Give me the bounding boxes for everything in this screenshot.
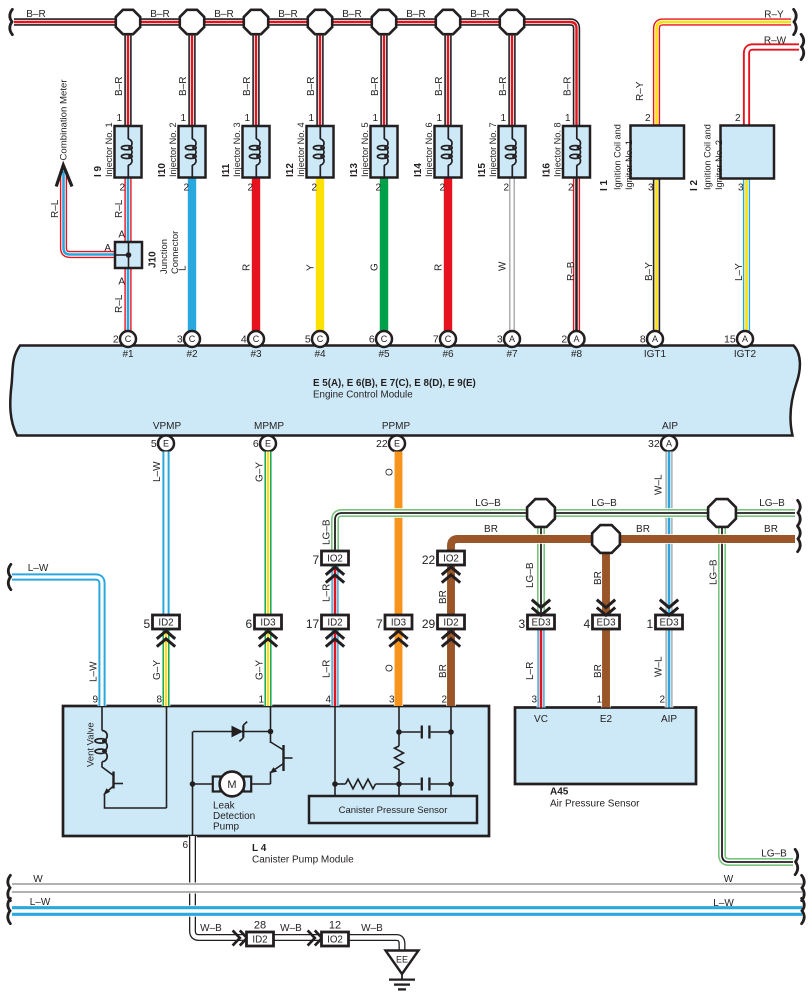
svg-text:IO2: IO2	[327, 934, 343, 945]
svg-text:LG–B: LG–B	[591, 498, 617, 509]
svg-text:Junction: Junction	[158, 239, 169, 274]
svg-text:BR: BR	[636, 524, 650, 535]
svg-text:G–Y: G–Y	[152, 660, 163, 680]
svg-text:I13: I13	[349, 163, 360, 177]
svg-text:A: A	[573, 334, 579, 344]
svg-text:ED3: ED3	[596, 617, 616, 628]
svg-text:I10: I10	[157, 163, 168, 177]
svg-text:7: 7	[376, 617, 383, 631]
svg-text:5: 5	[151, 438, 157, 450]
svg-text:L–W: L–W	[88, 661, 99, 682]
svg-text:W–B: W–B	[361, 923, 383, 934]
svg-text:32: 32	[648, 438, 660, 450]
svg-text:IO2: IO2	[327, 553, 343, 564]
svg-text:LG–B: LG–B	[761, 849, 787, 860]
svg-text:#3: #3	[250, 349, 262, 360]
svg-text:W: W	[33, 874, 43, 885]
svg-text:B–R: B–R	[470, 9, 489, 20]
svg-text:B–R: B–R	[242, 77, 253, 96]
svg-text:6: 6	[182, 840, 188, 851]
svg-text:1: 1	[180, 113, 186, 124]
svg-text:3: 3	[738, 183, 744, 194]
svg-text:6: 6	[369, 334, 375, 346]
svg-text:3: 3	[519, 617, 526, 631]
svg-text:M: M	[227, 779, 236, 791]
svg-text:#6: #6	[442, 349, 454, 360]
svg-text:2: 2	[659, 695, 665, 706]
svg-text:BR: BR	[438, 590, 449, 604]
svg-text:#8: #8	[571, 349, 583, 360]
svg-text:2: 2	[561, 334, 567, 346]
svg-text:R–L: R–L	[50, 199, 61, 218]
svg-text:L 4: L 4	[252, 843, 267, 854]
svg-text:B–R: B–R	[563, 77, 574, 96]
svg-text:28: 28	[254, 920, 266, 932]
svg-text:I15: I15	[477, 163, 488, 177]
svg-text:2: 2	[503, 183, 509, 194]
svg-text:BR: BR	[484, 524, 498, 535]
svg-text:2: 2	[735, 113, 741, 124]
svg-text:Injector No. 1: Injector No. 1	[104, 122, 114, 177]
svg-text:12: 12	[329, 920, 341, 932]
svg-text:B–R: B–R	[278, 9, 297, 20]
svg-text:L–R: L–R	[322, 660, 333, 678]
svg-text:Leak: Leak	[213, 801, 236, 812]
svg-text:#5: #5	[378, 349, 390, 360]
svg-text:Igniter No. 1: Igniter No. 1	[624, 140, 634, 190]
svg-text:A: A	[118, 277, 125, 288]
svg-text:Injector No. 2: Injector No. 2	[168, 122, 178, 177]
svg-text:W–B: W–B	[200, 923, 222, 934]
svg-text:R–B: R–B	[566, 261, 577, 281]
svg-text:B–R: B–R	[434, 77, 445, 96]
svg-text:22: 22	[422, 553, 436, 567]
svg-text:2: 2	[183, 183, 189, 194]
svg-text:B–R: B–R	[406, 9, 425, 20]
svg-text:C: C	[253, 334, 260, 344]
svg-text:C: C	[445, 334, 452, 344]
svg-text:E: E	[163, 439, 169, 449]
svg-text:B–Y: B–Y	[644, 262, 655, 281]
svg-text:L–R: L–R	[525, 662, 536, 680]
svg-text:B–R: B–R	[370, 77, 381, 96]
svg-text:I11: I11	[221, 163, 232, 177]
svg-text:AIP: AIP	[661, 714, 677, 725]
svg-text:BR: BR	[593, 664, 604, 678]
svg-text:R–Y: R–Y	[635, 81, 646, 101]
svg-text:R: R	[241, 264, 252, 271]
svg-text:A45: A45	[550, 787, 569, 798]
svg-text:1: 1	[308, 113, 314, 124]
svg-text:1: 1	[258, 695, 264, 706]
svg-text:1: 1	[596, 695, 602, 706]
svg-text:G–Y: G–Y	[255, 660, 266, 680]
svg-text:R–L: R–L	[114, 199, 125, 218]
svg-text:Ignition Coil and: Ignition Coil and	[703, 124, 713, 190]
svg-text:B–R: B–R	[306, 77, 317, 96]
svg-text:J10: J10	[148, 251, 159, 268]
svg-text:C: C	[381, 334, 388, 344]
svg-text:E 5(A), E 6(B), E 7(C), E 8(D): E 5(A), E 6(B), E 7(C), E 8(D), E 9(E)	[313, 378, 476, 389]
svg-text:2: 2	[645, 113, 651, 124]
svg-text:Injector No. 5: Injector No. 5	[360, 122, 370, 177]
svg-text:B–R: B–R	[114, 77, 125, 96]
svg-text:ID2: ID2	[327, 617, 342, 628]
svg-text:C: C	[125, 334, 132, 344]
svg-text:Canister Pressure Sensor: Canister Pressure Sensor	[339, 805, 448, 816]
svg-text:4: 4	[241, 334, 247, 346]
svg-text:BR: BR	[438, 664, 449, 678]
svg-text:1: 1	[565, 113, 571, 124]
svg-text:O: O	[385, 664, 396, 672]
svg-text:Injector No. 3: Injector No. 3	[232, 122, 242, 177]
svg-text:Detection: Detection	[213, 811, 255, 822]
svg-text:A: A	[118, 230, 125, 241]
svg-text:I 9: I 9	[93, 165, 104, 177]
svg-text:IGT1: IGT1	[644, 349, 667, 360]
svg-text:#4: #4	[314, 349, 326, 360]
svg-text:LG–B: LG–B	[525, 562, 536, 588]
svg-text:MPMP: MPMP	[254, 421, 284, 432]
svg-text:LG–B: LG–B	[759, 498, 785, 509]
svg-text:7: 7	[313, 553, 320, 567]
svg-text:5: 5	[305, 334, 311, 346]
svg-text:ED3: ED3	[531, 617, 551, 628]
svg-text:#2: #2	[186, 349, 198, 360]
svg-text:E: E	[394, 439, 400, 449]
svg-text:1: 1	[647, 617, 654, 631]
svg-text:B–R: B–R	[498, 77, 509, 96]
svg-text:1: 1	[436, 113, 442, 124]
svg-text:22: 22	[376, 438, 388, 450]
svg-text:Injector No. 6: Injector No. 6	[424, 122, 434, 177]
svg-text:1: 1	[116, 113, 122, 124]
svg-text:6: 6	[246, 617, 253, 631]
svg-text:2: 2	[568, 183, 574, 194]
svg-text:W–B: W–B	[280, 923, 302, 934]
svg-text:2: 2	[441, 695, 447, 706]
svg-text:IGT2: IGT2	[734, 349, 757, 360]
svg-text:4: 4	[325, 695, 331, 706]
svg-text:3: 3	[177, 334, 183, 346]
svg-text:1: 1	[500, 113, 506, 124]
svg-text:L–W: L–W	[713, 898, 734, 909]
svg-text:IO2: IO2	[443, 553, 459, 564]
svg-text:Injector No. 4: Injector No. 4	[296, 122, 306, 177]
svg-text:Pump: Pump	[213, 822, 240, 833]
svg-text:R–Y: R–Y	[764, 10, 784, 21]
svg-text:#7: #7	[506, 349, 518, 360]
svg-text:B–R: B–R	[214, 9, 233, 20]
svg-text:AIP: AIP	[662, 421, 678, 432]
svg-text:L–W: L–W	[28, 563, 49, 574]
svg-text:1: 1	[372, 113, 378, 124]
svg-text:2: 2	[311, 183, 317, 194]
svg-text:VC: VC	[534, 714, 548, 725]
svg-text:B–R: B–R	[178, 77, 189, 96]
svg-text:ID3: ID3	[260, 617, 276, 628]
svg-text:2: 2	[113, 334, 119, 346]
svg-text:B–R: B–R	[150, 9, 169, 20]
svg-text:W: W	[724, 874, 734, 885]
svg-text:#1: #1	[122, 349, 134, 360]
svg-text:Injector No. 7: Injector No. 7	[488, 122, 498, 177]
svg-text:I 2: I 2	[689, 179, 700, 191]
svg-text:W–L: W–L	[654, 656, 665, 677]
svg-text:I12: I12	[285, 163, 296, 177]
svg-text:ID2: ID2	[158, 617, 173, 628]
svg-text:W–L: W–L	[654, 474, 665, 495]
svg-text:2: 2	[439, 183, 445, 194]
svg-text:ED3: ED3	[659, 617, 679, 628]
svg-text:LG–B: LG–B	[709, 559, 720, 585]
svg-text:Air Pressure Sensor: Air Pressure Sensor	[550, 799, 640, 810]
svg-text:LG–B: LG–B	[322, 519, 333, 545]
svg-text:2: 2	[119, 183, 125, 194]
svg-text:5: 5	[144, 617, 151, 631]
svg-text:PPMP: PPMP	[382, 421, 411, 432]
svg-text:A: A	[509, 334, 515, 344]
svg-text:ID2: ID2	[443, 617, 458, 628]
svg-text:Igniter No. 2: Igniter No. 2	[714, 140, 724, 190]
svg-text:G: G	[369, 263, 380, 271]
svg-text:O: O	[385, 468, 396, 476]
svg-text:6: 6	[253, 438, 259, 450]
svg-text:Connector: Connector	[169, 231, 180, 274]
svg-text:3: 3	[497, 334, 503, 346]
svg-text:R–W: R–W	[764, 36, 787, 47]
svg-text:R–L: R–L	[114, 294, 125, 313]
svg-text:E: E	[265, 439, 271, 449]
svg-text:G–Y: G–Y	[255, 462, 266, 482]
svg-text:B–R: B–R	[26, 9, 45, 20]
svg-text:8: 8	[640, 334, 646, 346]
svg-text:Canister Pump Module: Canister Pump Module	[252, 855, 354, 866]
svg-text:Engine Control Module: Engine Control Module	[313, 390, 413, 401]
svg-text:7: 7	[433, 334, 439, 346]
svg-text:Y: Y	[305, 264, 316, 271]
svg-text:3: 3	[531, 695, 537, 706]
svg-text:L–Y: L–Y	[734, 263, 745, 281]
svg-text:3: 3	[389, 695, 395, 706]
svg-text:C: C	[317, 334, 324, 344]
svg-text:15: 15	[724, 334, 736, 346]
svg-text:8: 8	[156, 695, 162, 706]
svg-text:W: W	[497, 261, 508, 271]
svg-text:I14: I14	[413, 163, 424, 177]
svg-text:4: 4	[584, 617, 591, 631]
svg-text:L–W: L–W	[30, 897, 51, 908]
svg-text:L–R: L–R	[322, 584, 333, 602]
svg-text:A: A	[742, 334, 748, 344]
svg-text:Ignition Coil and: Ignition Coil and	[613, 124, 623, 190]
svg-text:BR: BR	[593, 571, 604, 585]
svg-text:I 1: I 1	[599, 179, 610, 191]
svg-text:E2: E2	[600, 714, 613, 725]
svg-text:ID2: ID2	[252, 934, 267, 945]
svg-text:29: 29	[422, 617, 436, 631]
svg-text:R: R	[433, 264, 444, 271]
svg-text:A: A	[666, 439, 672, 449]
svg-text:9: 9	[92, 695, 98, 706]
svg-text:LG–B: LG–B	[475, 498, 501, 509]
svg-text:C: C	[189, 334, 196, 344]
svg-text:BR: BR	[764, 524, 778, 535]
svg-text:1: 1	[244, 113, 250, 124]
svg-text:Combination Meter: Combination Meter	[58, 79, 69, 161]
svg-text:B–R: B–R	[342, 9, 361, 20]
svg-text:2: 2	[247, 183, 253, 194]
svg-text:VPMP: VPMP	[153, 421, 182, 432]
svg-text:3: 3	[648, 183, 654, 194]
svg-text:A: A	[652, 334, 658, 344]
svg-text:I16: I16	[542, 163, 553, 177]
svg-text:Injector No. 8: Injector No. 8	[553, 122, 563, 177]
svg-text:17: 17	[306, 617, 320, 631]
svg-text:ID3: ID3	[391, 617, 407, 628]
svg-text:A: A	[104, 243, 111, 254]
svg-text:L–W: L–W	[152, 461, 163, 482]
svg-text:EE: EE	[396, 955, 408, 965]
svg-text:2: 2	[375, 183, 381, 194]
svg-text:Vent Valve: Vent Valve	[86, 722, 97, 767]
